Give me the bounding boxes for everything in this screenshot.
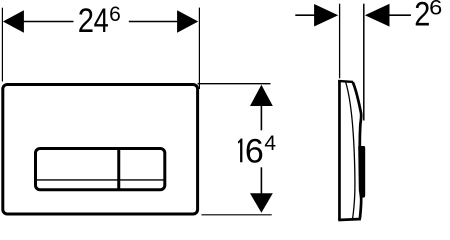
dim 26: superscript 6: [429, 0, 442, 19]
dim 246: right extension line: [198, 8, 200, 89]
side view: inner bevel line: [346, 83, 355, 220]
dim 26: right arrowhead (points left): [365, 4, 390, 27]
side view: button profile bump: [358, 146, 365, 198]
dim 246: superscript 6: [109, 3, 121, 26]
dim 164: top extension line: [198, 83, 271, 85]
dim 164: label digit 1: [238, 139, 242, 163]
dim 246: label digit 2: [78, 1, 94, 40]
dim 26: left line segment: [295, 14, 315, 16]
svg-text:6: 6: [245, 132, 264, 170]
dim 26: extension line front: [339, 4, 341, 79]
side view: front curved edge: [353, 82, 361, 218]
dim 26: left arrowhead (points right): [314, 4, 338, 27]
dim 164: bottom extension line: [201, 214, 271, 216]
side view: top edge: [338, 81, 353, 82]
svg-text:4: 4: [264, 132, 276, 155]
plate outer body (front view): [3, 85, 198, 215]
side view: bottom edge: [338, 219, 361, 220]
svg-text:6: 6: [109, 3, 121, 26]
dim 246: label digit 4: [94, 1, 109, 40]
svg-text:6: 6: [429, 0, 442, 19]
dim 246: left extension line: [1, 8, 3, 82]
dim 246: left line segment: [22, 21, 74, 23]
svg-text:4: 4: [94, 1, 109, 40]
dim 26: right line segment: [389, 14, 411, 16]
dim 164: bottom line segment: [260, 167, 262, 194]
svg-text:2: 2: [78, 1, 94, 40]
dim 26: extension line back: [363, 4, 365, 121]
dim 26: label digit 2: [414, 0, 430, 33]
button frame: [36, 149, 165, 190]
dim 246: right line segment: [129, 21, 180, 23]
dim 164: label digit 6: [245, 132, 264, 170]
dim 246: left arrowhead: [3, 10, 24, 33]
dim 246: right arrowhead: [177, 10, 198, 33]
dim 164: superscript 4: [264, 132, 276, 155]
dim 164: down arrowhead: [250, 193, 273, 213]
side view: back (wall) edge: [338, 80, 341, 220]
dim 164: up arrowhead: [250, 85, 273, 106]
button divider: [117, 149, 120, 190]
button bevel line: [36, 179, 164, 181]
svg-text:2: 2: [414, 0, 430, 33]
dim 164: top line segment: [260, 105, 262, 130]
